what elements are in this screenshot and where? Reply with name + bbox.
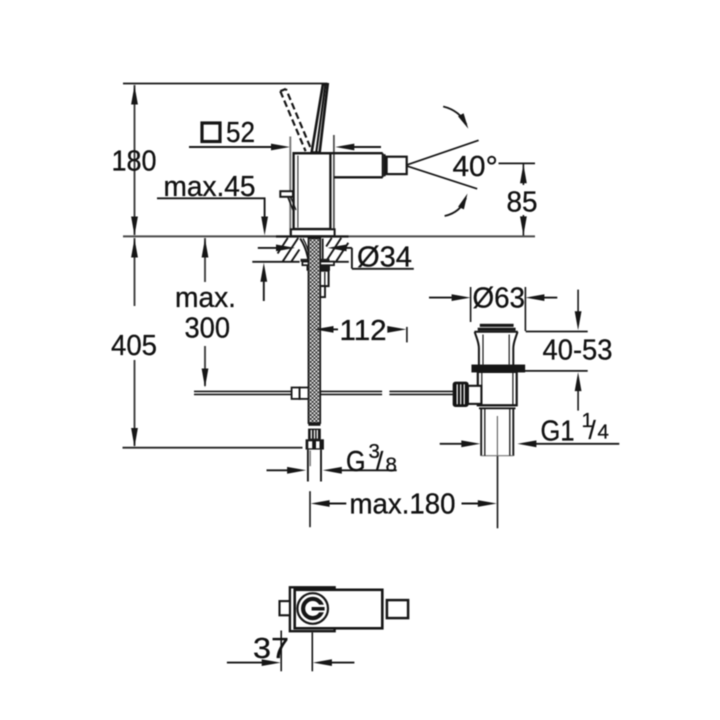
- dimension max300 arrow up: [202, 239, 209, 258]
- dimension 405 arrow down: [131, 428, 138, 447]
- svg-text:Ø34: Ø34: [357, 242, 412, 274]
- max180 ext line left: [309, 451, 311, 528]
- dimension 63 ext line left: [470, 287, 472, 322]
- square symbol for 52: [202, 123, 220, 142]
- waste knob connector: [468, 386, 482, 404]
- dimension G114 arrow right: [461, 440, 480, 447]
- waste centerline: [496, 416, 498, 456]
- top view ring slot: [311, 605, 327, 613]
- label max180: [350, 489, 456, 521]
- dimension 180 vertical line: [134, 85, 136, 235]
- extension line right of body: [333, 135, 335, 229]
- dimension 63 line left: [429, 297, 452, 299]
- dimension 85 top line: [499, 162, 536, 164]
- dimension 85 vertical upper: [522, 163, 524, 185]
- hose knurled nut: [308, 429, 321, 440]
- dimension 34 leader elbow: [351, 248, 353, 269]
- dimension 37 line left: [227, 662, 264, 664]
- rod adjuster block: [292, 388, 300, 399]
- top view right tab: [387, 600, 408, 618]
- svg-text:37: 37: [253, 633, 289, 665]
- max.45 leader vertical: [264, 198, 266, 221]
- deck hatch right: [326, 238, 348, 261]
- pop-up rod knob at back: [280, 191, 293, 197]
- top reference line (handle max height): [123, 83, 328, 85]
- fan line lower: [408, 166, 478, 189]
- label G114: [541, 409, 609, 448]
- top view handle bar: [312, 607, 325, 611]
- label max300: [175, 282, 236, 345]
- dimension G38 line right: [341, 469, 397, 471]
- hole bottom shadow: [301, 259, 330, 262]
- aerator end piece: [387, 157, 407, 174]
- dimension 4053 vertical lower: [577, 386, 579, 411]
- shank right line: [322, 239, 324, 262]
- waste seal ring: [472, 365, 524, 371]
- handle lever solid: [312, 84, 328, 152]
- svg-text:/: /: [376, 446, 384, 476]
- svg-text:8: 8: [386, 454, 397, 477]
- label 52: [226, 117, 255, 149]
- label 40-53: [543, 335, 613, 367]
- svg-text:405: 405: [111, 330, 157, 362]
- waste plug cap: [478, 324, 516, 331]
- dimension 52 line left: [189, 146, 277, 148]
- top view left tab: [280, 601, 290, 615]
- max.45 lower arrow up to deck bottom: [260, 263, 267, 282]
- waste body inner lines: [482, 373, 513, 405]
- mounting nut: [307, 265, 331, 271]
- svg-text:max.: max.: [175, 282, 236, 314]
- handle lever dashed position: [280, 89, 311, 151]
- dimension 85 arrow up: [520, 164, 527, 183]
- arc arrow lower: [445, 194, 468, 217]
- countertop line: [123, 235, 535, 237]
- rod clamp at hose: [300, 388, 319, 399]
- waste body cylinder: [478, 372, 517, 405]
- dimension G38 arrow right: [287, 467, 306, 474]
- waste flange body: [475, 332, 518, 365]
- dimension 405 label: [111, 330, 157, 362]
- dimension 4053 ref line top: [526, 331, 588, 333]
- spout tube: [334, 153, 383, 177]
- faucet base plate: [291, 229, 335, 236]
- svg-text:40: 40: [453, 151, 486, 183]
- waste body bottom rings: [478, 405, 517, 408]
- waste flange top line: [474, 331, 517, 333]
- rod guide stub narrow: [320, 286, 325, 297]
- svg-text:85: 85: [507, 187, 538, 219]
- dimension G114 arrow left: [517, 440, 536, 447]
- mounting washer: [302, 262, 334, 266]
- top view square body: [290, 587, 335, 631]
- svg-text:180: 180: [112, 146, 157, 178]
- dimension 4053 arrow up: [575, 372, 582, 391]
- svg-text:G1: G1: [541, 416, 575, 448]
- svg-text:max.180: max.180: [350, 489, 456, 521]
- flexible supply hose: [308, 238, 320, 423]
- dimension 180 label: [112, 146, 157, 178]
- dimension 112 line left: [331, 328, 338, 330]
- arc arrow upper: [443, 107, 468, 129]
- pop-up rod inside body: [288, 198, 296, 212]
- dimension 180 arrow down: [131, 217, 138, 236]
- label O34 underline: [352, 268, 414, 270]
- dimension 34 line left: [258, 247, 278, 249]
- faucet body outline: [294, 153, 331, 229]
- dimension 85 vertical lower: [522, 215, 524, 236]
- dimension 37 ext line left: [280, 631, 282, 672]
- waste tailpipe inner lines: [485, 409, 510, 456]
- dimension 405 vertical line upper: [134, 238, 136, 306]
- dimension 4053 vertical upper: [577, 290, 579, 315]
- dimension max300 vertical upper: [204, 238, 206, 282]
- dimension 112 arrow left: [315, 326, 334, 333]
- dimension 52 arrow right: [271, 144, 290, 151]
- max.45 arrow down to deck top: [261, 217, 268, 236]
- rod guide stub: [320, 271, 329, 286]
- fan line upper: [408, 140, 479, 164]
- label G38: [346, 440, 397, 478]
- dimension max180 arrow right: [478, 500, 497, 507]
- max.45 lower leader vertical: [263, 276, 265, 301]
- max180 ext line right: [497, 456, 499, 528]
- dimension 63 line right: [543, 297, 558, 299]
- linkage rod right segment: [389, 391, 453, 394]
- svg-text:°: °: [486, 150, 498, 185]
- label O34: [357, 242, 412, 274]
- svg-text:G: G: [346, 446, 366, 478]
- extension line left of body: [289, 137, 291, 236]
- faucet body inner line: [297, 156, 299, 228]
- top view body: [295, 590, 383, 629]
- label 112: [340, 315, 387, 347]
- dimension G38 arrow left: [323, 467, 342, 474]
- deck hatch left: [278, 238, 300, 261]
- label 85: [507, 187, 538, 219]
- waste tailpipe: [481, 408, 513, 456]
- deck section bottom line left: [252, 261, 299, 263]
- dimension 37 line right: [330, 662, 354, 664]
- label 40 deg: [453, 150, 498, 185]
- dimension 112 arrow right: [387, 326, 406, 333]
- top view handle outer circle: [297, 593, 328, 624]
- dimension 37 arrow right: [262, 659, 281, 666]
- dimension 52 arrow left: [335, 144, 354, 151]
- dimension 63 arrow left: [525, 294, 544, 301]
- hose hex nut: [306, 439, 324, 449]
- dimension G114 line right: [535, 443, 620, 445]
- dimension 63 ext line right: [524, 287, 526, 331]
- svg-text:112: 112: [340, 315, 387, 347]
- dimension G38 line left: [267, 469, 289, 471]
- shank left curve: [300, 239, 309, 262]
- dimension 85 arrow down: [520, 216, 527, 235]
- dimension 4053 arrow down: [575, 311, 582, 330]
- dimension 63 arrow right: [452, 294, 471, 301]
- dimension 52 line right: [348, 146, 381, 148]
- svg-text:Ø63: Ø63: [473, 283, 526, 315]
- svg-text:4: 4: [598, 421, 609, 444]
- dimension 34 arrow left: [328, 245, 347, 252]
- dimension 405 vertical line lower: [134, 360, 136, 446]
- faucet top line to spout: [293, 152, 383, 154]
- spout joint line: [384, 154, 386, 176]
- dimension 405 arrow up: [131, 239, 138, 258]
- dimension max300 vertical lower: [204, 346, 206, 386]
- svg-text:300: 300: [185, 313, 231, 345]
- max.45 underline leader: [157, 197, 266, 199]
- label O63: [473, 283, 526, 315]
- deck section top line: [276, 235, 349, 237]
- dimension 34 line right: [341, 247, 352, 249]
- top view handle inner ring: [303, 599, 322, 618]
- dimension 37 arrow left: [313, 659, 332, 666]
- svg-text:52: 52: [226, 117, 255, 149]
- dimension 180 arrow up: [131, 86, 138, 105]
- dimension 4053 ref line bottom: [520, 370, 588, 372]
- svg-text:/: /: [589, 415, 597, 445]
- dimension max180 line left: [327, 503, 346, 505]
- dimension 37 ext line right: [311, 633, 313, 672]
- dimension G114 line left: [440, 443, 463, 445]
- svg-text:40-53: 40-53: [543, 335, 613, 367]
- reference line at hose end (405 bottom): [123, 447, 303, 449]
- label max.45: [164, 171, 256, 203]
- hose tail G38: [308, 450, 321, 482]
- waste knob knurled: [453, 382, 468, 406]
- dimension max300 arrow down: [202, 369, 209, 388]
- dimension 34 arrow right: [276, 245, 295, 252]
- dimension max180 arrow left: [311, 500, 330, 507]
- extension line at 112 right: [406, 327, 408, 343]
- dimension max180 line right: [462, 503, 480, 505]
- label 37: [253, 633, 289, 665]
- linkage rod left segment: [194, 391, 382, 394]
- deck section bottom line right: [325, 261, 349, 263]
- hose end cap: [308, 423, 320, 426]
